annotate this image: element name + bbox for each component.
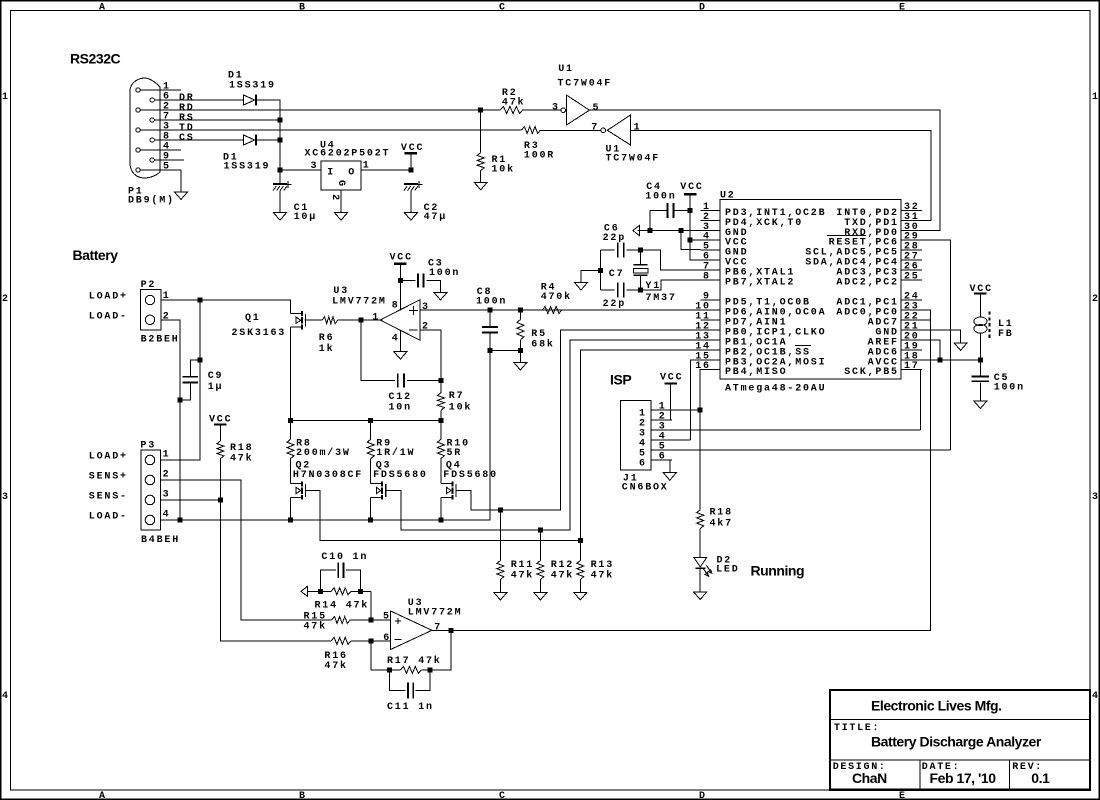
svg-text:8: 8 <box>392 301 400 312</box>
svg-text:2: 2 <box>1092 294 1100 305</box>
svg-text:R13: R13 <box>591 560 614 571</box>
svg-text:7: 7 <box>591 123 599 134</box>
svg-text:FB: FB <box>998 329 1014 340</box>
svg-text:1k: 1k <box>319 343 335 355</box>
svg-text:68k: 68k <box>531 338 554 350</box>
svg-text:8: 8 <box>703 272 711 283</box>
svg-text:VCC: VCC <box>680 182 703 193</box>
svg-text:2: 2 <box>329 194 340 200</box>
svg-text:A: A <box>99 791 107 800</box>
svg-text:2: 2 <box>422 321 430 332</box>
svg-text:100R: 100R <box>524 151 555 162</box>
svg-text:10k: 10k <box>492 164 515 176</box>
svg-text:R6: R6 <box>319 333 335 344</box>
svg-text:VCC: VCC <box>390 253 413 264</box>
svg-text:DB9(M): DB9(M) <box>128 194 175 206</box>
svg-text:P2: P2 <box>141 280 157 291</box>
svg-text:470k: 470k <box>541 291 572 303</box>
svg-text:Feb 17, '10: Feb 17, '10 <box>930 770 997 786</box>
svg-text:47µ: 47µ <box>424 212 447 223</box>
svg-text:D: D <box>699 2 707 13</box>
svg-text:4: 4 <box>163 510 171 521</box>
svg-text:5: 5 <box>383 612 391 623</box>
svg-text:10k: 10k <box>449 401 472 413</box>
svg-text:2SK3163: 2SK3163 <box>232 328 287 339</box>
svg-text:5R: 5R <box>447 448 463 459</box>
svg-text:FDS5680: FDS5680 <box>373 470 428 481</box>
svg-text:3: 3 <box>422 302 430 313</box>
svg-text:0.1: 0.1 <box>1031 770 1050 786</box>
svg-text:H7N0308CF: H7N0308CF <box>293 470 363 481</box>
svg-text:100n: 100n <box>476 297 507 308</box>
svg-text:4: 4 <box>392 334 400 345</box>
svg-text:R18: R18 <box>710 508 733 519</box>
svg-text:U1: U1 <box>558 64 574 75</box>
svg-text:1: 1 <box>372 312 380 323</box>
svg-text:100n: 100n <box>429 268 460 279</box>
svg-text:4: 4 <box>1092 691 1100 702</box>
svg-text:CS: CS <box>179 133 195 144</box>
svg-text:47k: 47k <box>324 660 347 672</box>
svg-text:1SS319: 1SS319 <box>229 81 276 92</box>
svg-text:LOAD+: LOAD+ <box>89 292 128 303</box>
svg-text:2: 2 <box>163 470 171 481</box>
svg-text:C: C <box>499 791 507 800</box>
svg-text:B: B <box>299 791 307 800</box>
svg-text:SENS+: SENS+ <box>89 472 128 483</box>
svg-text:U3: U3 <box>333 286 349 297</box>
svg-text:C12: C12 <box>389 392 412 403</box>
svg-text:D: D <box>699 791 707 800</box>
svg-text:TC7W04F: TC7W04F <box>606 153 661 164</box>
svg-text:3: 3 <box>2 492 10 503</box>
svg-text:ATmega48-20AU: ATmega48-20AU <box>725 384 826 395</box>
svg-text:R14 47k: R14 47k <box>315 600 370 612</box>
svg-text:7M37: 7M37 <box>646 293 677 304</box>
svg-text:R11: R11 <box>511 560 534 571</box>
svg-text:SCK,PB5: SCK,PB5 <box>844 367 899 378</box>
svg-text:5: 5 <box>593 103 601 114</box>
svg-text:R18: R18 <box>230 443 253 454</box>
svg-text:LMV772M: LMV772M <box>332 297 387 308</box>
svg-text:O: O <box>348 168 356 179</box>
svg-text:C9: C9 <box>208 371 224 382</box>
svg-text:2: 2 <box>163 312 171 323</box>
svg-text:1: 1 <box>163 450 171 461</box>
svg-text:47k: 47k <box>502 96 525 108</box>
svg-text:1: 1 <box>1092 92 1100 103</box>
svg-text:25: 25 <box>904 272 920 283</box>
svg-text:PB4,MISO: PB4,MISO <box>725 367 787 378</box>
svg-text:5: 5 <box>163 162 171 173</box>
svg-text:FDS5680: FDS5680 <box>443 470 498 481</box>
svg-text:RS232C: RS232C <box>70 50 121 66</box>
svg-text:47k: 47k <box>304 621 327 633</box>
svg-text:E: E <box>899 2 907 13</box>
svg-text:4k7: 4k7 <box>710 518 733 530</box>
svg-text:CN6BOX: CN6BOX <box>622 483 669 494</box>
svg-text:17: 17 <box>904 361 920 372</box>
svg-text:P3: P3 <box>140 440 156 451</box>
svg-text:47k: 47k <box>591 570 614 582</box>
svg-text:R12: R12 <box>551 560 574 571</box>
svg-text:U2: U2 <box>720 190 736 201</box>
svg-text:22p: 22p <box>603 299 626 310</box>
svg-text:Y1: Y1 <box>645 281 661 292</box>
svg-text:Battery: Battery <box>73 247 119 263</box>
svg-text:LMV772M: LMV772M <box>408 608 463 619</box>
svg-text:Running: Running <box>751 563 805 579</box>
svg-text:2: 2 <box>2 294 10 305</box>
svg-text:1: 1 <box>2 92 10 103</box>
svg-text:C11 1n: C11 1n <box>387 702 434 713</box>
svg-text:B2BEH: B2BEH <box>141 335 180 346</box>
svg-text:C10 1n: C10 1n <box>321 552 368 563</box>
svg-text:C: C <box>499 2 507 13</box>
svg-text:ADC2,PC2: ADC2,PC2 <box>836 278 898 289</box>
svg-text:4: 4 <box>2 691 10 702</box>
svg-text:7: 7 <box>434 623 442 634</box>
svg-text:1µ: 1µ <box>208 382 224 393</box>
svg-text:6: 6 <box>383 633 391 644</box>
svg-text:R7: R7 <box>449 391 465 402</box>
svg-text:C7: C7 <box>609 269 625 280</box>
svg-text:LOAD-: LOAD- <box>89 512 128 523</box>
svg-text:Battery Discharge Analyzer: Battery Discharge Analyzer <box>871 733 1042 749</box>
svg-text:B: B <box>299 2 307 13</box>
svg-text:47k: 47k <box>230 453 253 465</box>
svg-text:I: I <box>327 168 335 179</box>
svg-text:A: A <box>99 2 107 13</box>
svg-text:3: 3 <box>1092 492 1100 503</box>
svg-text:ISP: ISP <box>610 372 631 388</box>
svg-text:47k: 47k <box>511 570 534 582</box>
svg-text:200m/3W: 200m/3W <box>296 447 351 459</box>
svg-text:SENS-: SENS- <box>89 492 128 503</box>
svg-text:22p: 22p <box>603 233 626 244</box>
svg-text:100n: 100n <box>645 192 676 203</box>
svg-text:XC6202P502T: XC6202P502T <box>305 149 391 160</box>
svg-text:R17 47k: R17 47k <box>387 655 442 667</box>
svg-text:LED: LED <box>716 565 739 576</box>
svg-text:3: 3 <box>163 490 171 501</box>
svg-text:LOAD-: LOAD- <box>89 311 128 322</box>
svg-text:16: 16 <box>695 361 711 372</box>
svg-text:B4BEH: B4BEH <box>141 535 180 546</box>
svg-text:ChaN: ChaN <box>852 770 887 786</box>
svg-text:Q1: Q1 <box>245 313 261 324</box>
svg-text:G: G <box>335 180 346 186</box>
svg-text:1R/1W: 1R/1W <box>376 447 415 459</box>
svg-text:6: 6 <box>639 458 647 469</box>
svg-text:PB7,XTAL2: PB7,XTAL2 <box>725 278 795 289</box>
svg-text:1SS319: 1SS319 <box>224 162 271 173</box>
svg-text:3: 3 <box>552 103 560 114</box>
svg-text:LOAD+: LOAD+ <box>89 452 128 463</box>
svg-text:E: E <box>899 791 907 800</box>
svg-text:TC7W04F: TC7W04F <box>558 78 613 89</box>
svg-text:VCC: VCC <box>660 373 683 384</box>
svg-text:10n: 10n <box>389 402 412 413</box>
svg-text:6: 6 <box>659 452 667 463</box>
svg-text:10µ: 10µ <box>294 212 317 223</box>
svg-text:100n: 100n <box>994 383 1025 394</box>
svg-text:Electronic Lives Mfg.: Electronic Lives Mfg. <box>871 698 1002 714</box>
svg-text:1: 1 <box>634 122 642 133</box>
svg-text:47k: 47k <box>551 570 574 582</box>
